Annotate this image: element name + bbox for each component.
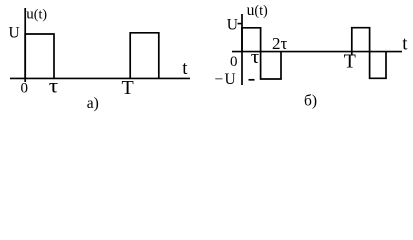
svg-text:u(t): u(t)	[247, 2, 268, 19]
right positive pulse 2 (at T)	[352, 28, 370, 56]
svg-text:T: T	[122, 77, 134, 99]
left horizontal axis (t axis)	[10, 77, 190, 79]
svg-text:U: U	[227, 16, 238, 33]
left vertical axis (u axis)	[24, 8, 26, 82]
right horizontal axis (t axis)	[232, 51, 402, 53]
svg-text:U: U	[9, 25, 20, 42]
svg-text:τ: τ	[251, 47, 260, 68]
svg-text:0: 0	[230, 54, 238, 70]
svg-text:T: T	[344, 51, 356, 73]
svg-text:б): б)	[304, 93, 317, 110]
right negative pulse 1 (tau to 2tau)	[261, 52, 281, 79]
right positive pulse 1 (0 to tau)	[242, 28, 261, 52]
svg-text:2τ: 2τ	[272, 34, 288, 53]
svg-text:− U: − U	[215, 71, 236, 88]
svg-text:0: 0	[21, 81, 29, 97]
svg-text:τ: τ	[49, 75, 59, 97]
right vertical axis (u axis)	[241, 14, 243, 85]
svg-text:t: t	[402, 33, 408, 54]
svg-text:a): a)	[87, 95, 99, 112]
U level tick right	[238, 23, 243, 25]
right negative pulse 2	[370, 52, 386, 79]
left pulse 1 (0 to tau)	[25, 34, 54, 78]
minus U level dash	[249, 79, 255, 81]
svg-text:t: t	[182, 58, 188, 79]
svg-text:u(t): u(t)	[26, 7, 47, 23]
left pulse 2 (at T)	[130, 33, 159, 79]
